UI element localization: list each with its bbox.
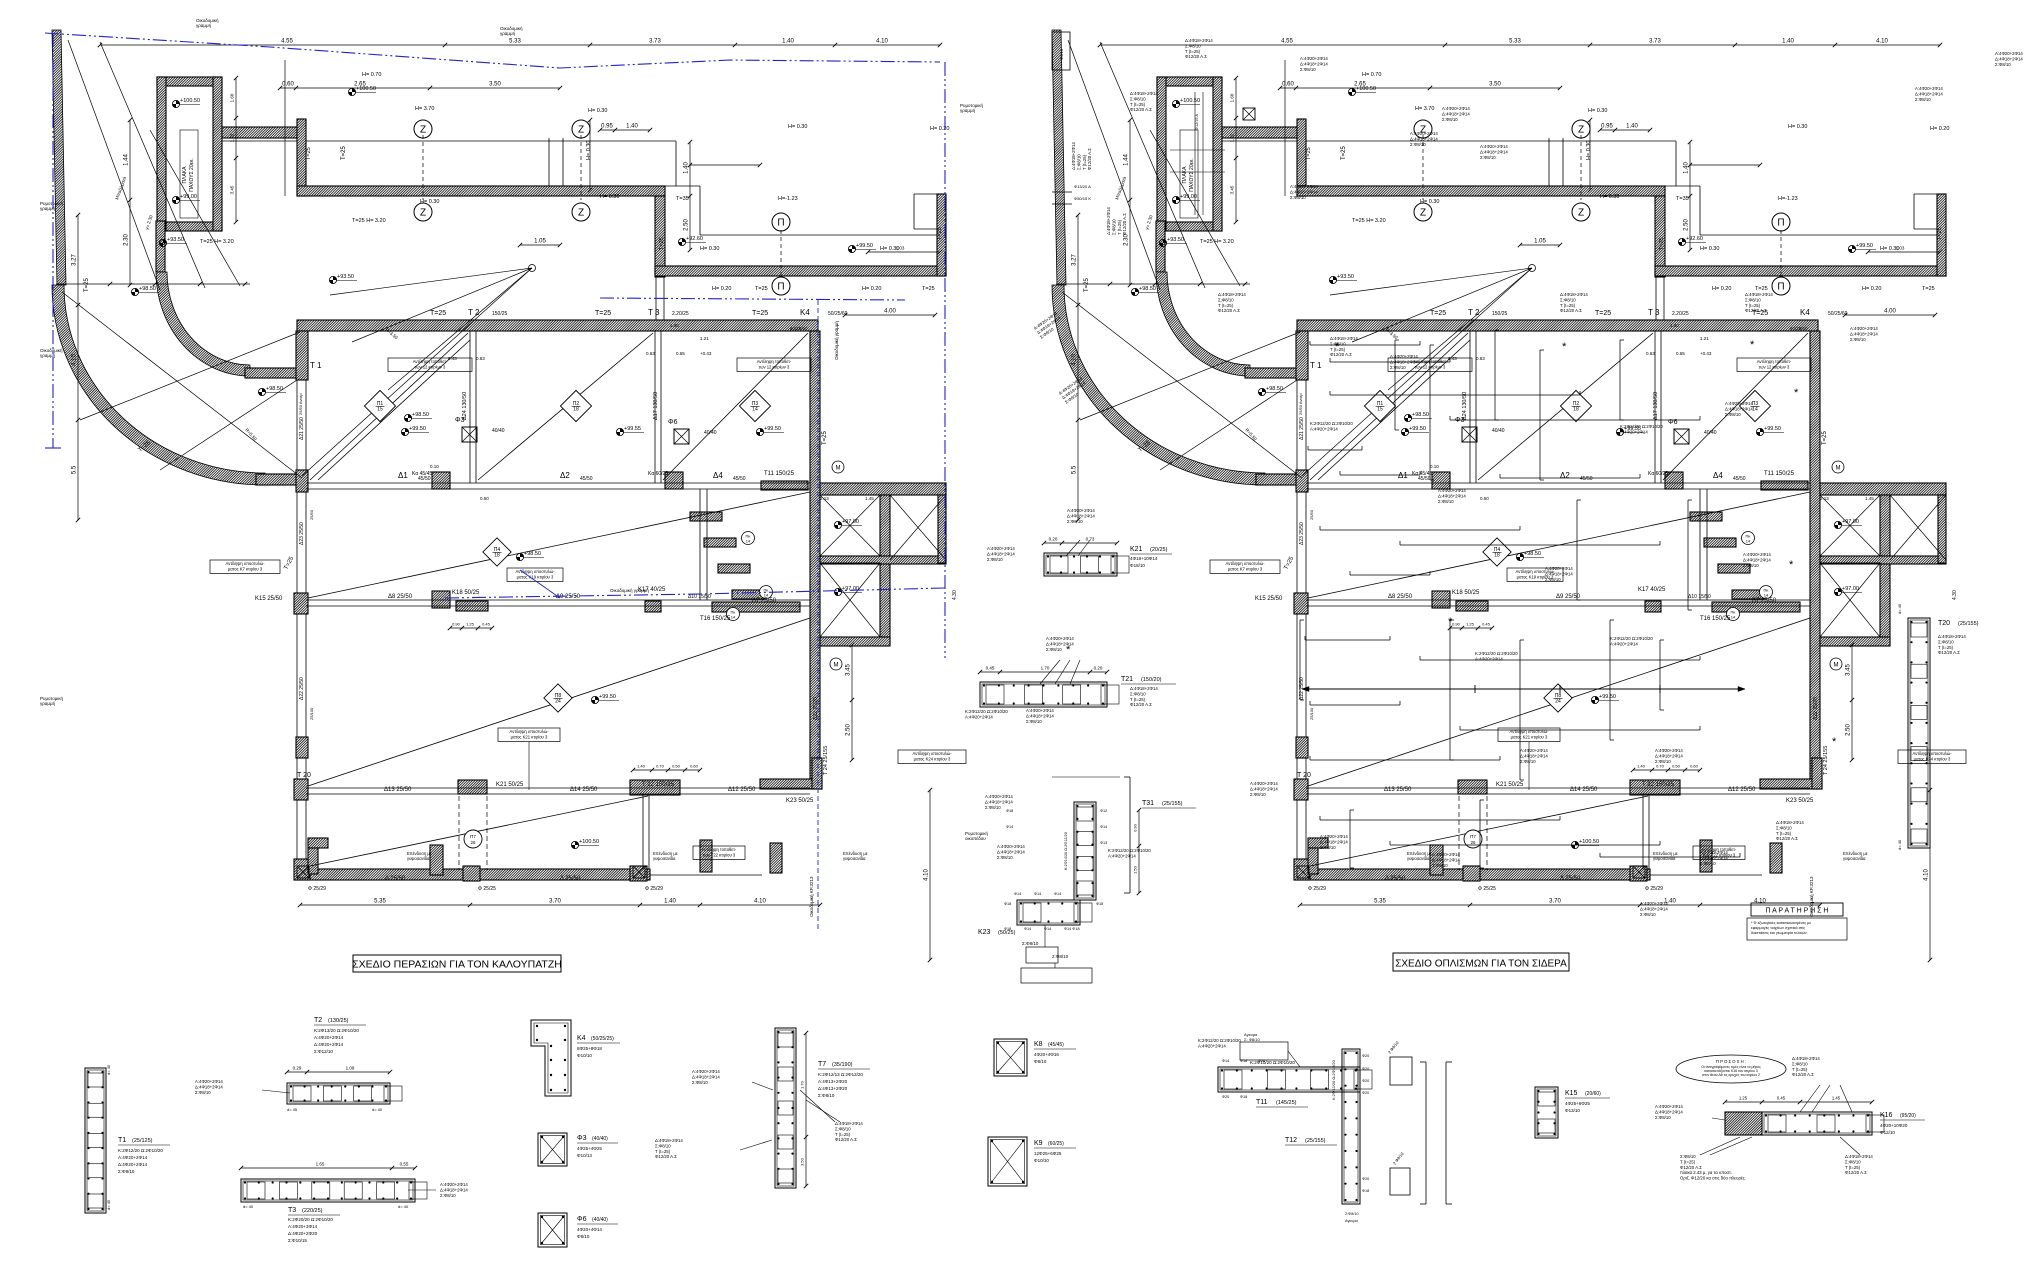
- svg-text:Δ:4Φ18+2Φ14: Δ:4Φ18+2Φ14: [1046, 641, 1074, 646]
- svg-text:0.45: 0.45: [986, 666, 995, 671]
- svg-text:Δ1: Δ1: [1398, 471, 1408, 480]
- svg-text:γραμμή: γραμμή: [40, 352, 56, 358]
- svg-text:Z: Z: [1420, 208, 1426, 219]
- svg-text:2.20/25: 2.20/25: [1672, 311, 1689, 317]
- svg-text:Φ18/10: Φ18/10: [1130, 563, 1145, 568]
- svg-text:K16: K16: [1880, 1112, 1893, 1119]
- svg-text:4Φ20+4Φ14: 4Φ20+4Φ14: [577, 1227, 602, 1232]
- svg-text:Δ:4Φ18+2Φ14: Δ:4Φ18+2Φ14: [1442, 111, 1470, 116]
- svg-text:0.73: 0.73: [1086, 537, 1095, 542]
- svg-text:Τ (t=25): Τ (t=25): [835, 1132, 851, 1137]
- svg-text:(20/60): (20/60): [1585, 1091, 1601, 1097]
- svg-text:Δ22 25/20: Δ22 25/20: [1813, 697, 1819, 720]
- svg-text:+100.50: +100.50: [1579, 839, 1599, 845]
- svg-text:1.60: 1.60: [1230, 93, 1235, 102]
- svg-text:Σ:Φ8/10: Σ:Φ8/10: [1545, 577, 1561, 582]
- svg-text:5.33: 5.33: [509, 39, 521, 45]
- svg-text:8Φ25+8Φ18: 8Φ25+8Φ18: [577, 1046, 602, 1051]
- svg-text:Δ:4Φ20+2Φ20: Δ:4Φ20+2Φ20: [288, 1231, 318, 1236]
- svg-text:Δ:4Φ18+2Φ14: Δ:4Φ18+2Φ14: [1130, 686, 1158, 691]
- svg-text:+98.50: +98.50: [266, 386, 283, 392]
- svg-text:K23: K23: [978, 929, 991, 936]
- svg-text:T=25: T=25: [1341, 145, 1347, 160]
- svg-text:T16 150/25: T16 150/25: [700, 616, 731, 622]
- svg-text:1.65: 1.65: [316, 1162, 325, 1167]
- svg-text:Κ:2Φ12/20 Ω:2Φ10/20: Κ:2Φ12/20 Ω:2Φ10/20: [1620, 424, 1663, 429]
- svg-text:(45/45): (45/45): [1048, 1042, 1064, 1048]
- svg-text:Δ17 130/50: Δ17 130/50: [1653, 392, 1659, 420]
- svg-text:Δ21 25/50: Δ21 25/50: [299, 417, 305, 440]
- svg-text:T3: T3: [288, 1207, 296, 1214]
- svg-text:Kα 45/45: Kα 45/45: [1412, 471, 1432, 477]
- svg-text:Σ:Φ8/10: Σ:Φ8/10: [1432, 863, 1448, 868]
- svg-text:Φ12/20 Α.Σ: Φ12/20 Α.Σ: [1560, 308, 1582, 313]
- svg-text:T16 150/25: T16 150/25: [1700, 616, 1731, 622]
- svg-text:Δ:4Φ18+2Φ14: Δ:4Φ18+2Φ14: [1320, 839, 1348, 844]
- svg-text:T20: T20: [1938, 620, 1950, 627]
- svg-text:Α:4Φ20+2Φ14: Α:4Φ20+2Φ14: [195, 1079, 223, 1084]
- svg-text:Φ12/20 Α.Σ: Φ12/20 Α.Σ: [835, 1137, 857, 1142]
- svg-text:3.50: 3.50: [1489, 82, 1501, 88]
- svg-text:14: 14: [1764, 593, 1769, 598]
- svg-text:Κ:2Φ12/13 Ω:2Φ12/20: Κ:2Φ12/13 Ω:2Φ12/20: [818, 1072, 863, 1077]
- svg-text:Δ:4Φ20+2Φ14: Δ:4Φ20+2Φ14: [118, 1162, 148, 1167]
- svg-text:Φ12/20 Α.Σ: Φ12/20 Α.Σ: [1185, 54, 1207, 59]
- svg-text:0.20: 0.20: [1049, 537, 1058, 542]
- svg-text:Σ:Φ8/10: Σ:Φ8/10: [1250, 792, 1266, 797]
- svg-text:Σ:Φ8/10: Σ:Φ8/10: [1218, 297, 1234, 302]
- svg-text:1.62: 1.62: [230, 133, 235, 142]
- svg-text:Α:4Φ20+2Φ14: Α:4Φ20+2Φ14: [1850, 326, 1878, 331]
- svg-text:+98.50: +98.50: [524, 551, 541, 557]
- svg-text:Δ:4Φ18+2Φ14: Δ:4Φ18+2Φ14: [1792, 1056, 1820, 1061]
- svg-text:+98.50: +98.50: [1266, 386, 1283, 392]
- svg-text:ΠΛΑΚΑ: ΠΛΑΚΑ: [1182, 166, 1188, 184]
- svg-text:Σ:Φ8/10: Σ:Φ8/10: [985, 805, 1001, 810]
- svg-text:0.83: 0.83: [476, 356, 485, 361]
- svg-text:d= 40: d= 40: [243, 1204, 254, 1209]
- svg-text:Σ:Φ8/10: Σ:Φ8/10: [1111, 219, 1116, 235]
- svg-text:0.70: 0.70: [656, 764, 665, 769]
- svg-text:1.40: 1.40: [670, 323, 679, 328]
- svg-text:Δ:4Φ18+2Φ14: Δ:4Φ18+2Φ14: [1106, 207, 1111, 235]
- svg-text:Δ:4Φ18+2Φ14: Δ:4Φ18+2Φ14: [1300, 61, 1328, 66]
- svg-text:5.33: 5.33: [1509, 39, 1521, 45]
- svg-text:1.70: 1.70: [1041, 666, 1050, 671]
- svg-text:Σ:Φ8/10: Σ:Φ8/10: [1680, 1154, 1696, 1159]
- svg-text:T=25: T=25: [922, 286, 935, 292]
- svg-text:ματος Κ7 κτιρίου 3: ματος Κ7 κτιρίου 3: [228, 566, 263, 571]
- svg-text:3.45: 3.45: [1230, 185, 1235, 194]
- svg-text:Σ:Φ8/10: Σ:Φ8/10: [1560, 297, 1576, 302]
- svg-text:T2: T2: [314, 1017, 322, 1024]
- svg-text:T 2: T 2: [1468, 308, 1480, 317]
- svg-text:K23 50/25: K23 50/25: [1786, 798, 1814, 804]
- svg-text:Σ:Φ8/10: Σ:Φ8/10: [195, 1090, 211, 1095]
- svg-text:Φ13/10: Φ13/10: [1565, 1108, 1580, 1113]
- svg-text:Α:4Φ20+2Φ14: Α:4Φ20+2Φ14: [965, 714, 993, 719]
- svg-text:+93.50: +93.50: [1337, 274, 1354, 280]
- svg-text:Κ:2Φ10/20 Ω:2Φ10/20: Κ:2Φ10/20 Ω:2Φ10/20: [1250, 1060, 1295, 1065]
- svg-text:Δ:4Φ18+2Φ14: Δ:4Φ18+2Φ14: [1545, 571, 1573, 576]
- svg-text:Δ24 130/50: Δ24 130/50: [1462, 392, 1468, 420]
- svg-text:T=25: T=25: [1659, 237, 1665, 250]
- svg-text:γραμμή: γραμμή: [40, 205, 56, 211]
- svg-text:18: 18: [494, 553, 500, 559]
- svg-text:(40/40): (40/40): [592, 1136, 608, 1142]
- svg-text:(150/20): (150/20): [1141, 677, 1162, 683]
- svg-text:+97.00: +97.00: [1842, 586, 1859, 592]
- svg-text:Δ 25/50: Δ 25/50: [1560, 876, 1581, 882]
- svg-text:Τ (t=25): Τ (t=25): [1117, 219, 1122, 235]
- svg-text:γραμμή: γραμμή: [40, 700, 56, 706]
- svg-text:γυψοσανίδα: γυψοσανίδα: [1407, 856, 1430, 861]
- svg-text:T=25: T=25: [755, 286, 768, 292]
- svg-text:Δ7 25/50: Δ7 25/50: [752, 598, 777, 604]
- svg-text:T=25: T=25: [1595, 310, 1611, 317]
- svg-text:Φ14: Φ14: [1006, 825, 1013, 829]
- svg-text:Φ14: Φ14: [1054, 892, 1061, 896]
- svg-text:H= 3.70: H= 3.70: [415, 106, 434, 112]
- svg-text:4.55: 4.55: [281, 39, 293, 45]
- svg-text:Φ14 Φ18: Φ14 Φ18: [1064, 927, 1080, 931]
- svg-text:0.90: 0.90: [1452, 622, 1461, 627]
- svg-text:4Φ25+6Φ25: 4Φ25+6Φ25: [1565, 1101, 1590, 1106]
- svg-text:0.63: 0.63: [1646, 351, 1655, 356]
- svg-text:Π: Π: [1777, 218, 1784, 229]
- svg-text:25/50: 25/50: [309, 509, 314, 520]
- svg-text:Α:4Φ20+2Φ14: Α:4Φ20+2Φ14: [692, 1069, 720, 1074]
- svg-text:Φ10/10: Φ10/10: [577, 1053, 592, 1058]
- svg-text:2:Φ8/10: 2:Φ8/10: [1052, 954, 1069, 959]
- svg-text:ματος Κ24 κτιρίου 3: ματος Κ24 κτιρίου 3: [914, 756, 951, 761]
- svg-text:γραμμή: γραμμή: [960, 107, 976, 113]
- svg-text:Τ (t=25): Τ (t=25): [1218, 303, 1234, 308]
- svg-text:Α:4Φ20+2Φ14: Α:4Φ20+2Φ14: [118, 1155, 148, 1160]
- svg-text:Α:4Φ20+2Φ14: Α:4Φ20+2Φ14: [1655, 748, 1683, 753]
- svg-text:2.50: 2.50: [1846, 724, 1852, 736]
- svg-text:Π Ρ Ο Σ Ο Χ Η :: Π Ρ Ο Σ Ο Χ Η :: [1716, 1059, 1746, 1064]
- svg-text:ματος Κ21 κτιρίου 3: ματος Κ21 κτιρίου 3: [511, 734, 548, 739]
- svg-text:1.05: 1.05: [534, 239, 546, 245]
- svg-text:(60/25): (60/25): [1048, 1141, 1064, 1147]
- svg-text:5.35: 5.35: [374, 899, 386, 905]
- svg-text:Φ12/20 Α.Σ: Φ12/20 Α.Σ: [1776, 836, 1798, 841]
- svg-text:K4: K4: [577, 1035, 586, 1042]
- svg-text:1.40: 1.40: [626, 124, 638, 130]
- svg-text:Π Α Ρ Α Τ Η Ρ Η Σ Η: Π Α Ρ Α Τ Η Ρ Η Σ Η: [1766, 908, 1829, 915]
- svg-text:(25/155): (25/155): [1305, 1138, 1326, 1144]
- svg-text:(95/20): (95/20): [1900, 1113, 1916, 1119]
- svg-text:Φ12/20 Α.Σ: Φ12/20 Α.Σ: [1087, 148, 1092, 170]
- svg-text:Δ23 25/50: Δ23 25/50: [1299, 522, 1305, 545]
- svg-text:H= 0.30: H= 0.30: [1600, 194, 1619, 200]
- svg-text:3.27: 3.27: [72, 254, 78, 266]
- svg-text:Φ2/13: Φ2/13: [1059, 48, 1064, 60]
- svg-text:ΣΧΕΔΙΟ ΟΠΛΙΣΜΩΝ ΓΙΑ ΤΟΝ ΣΙΔΕΡΑ: ΣΧΕΔΙΟ ΟΠΛΙΣΜΩΝ ΓΙΑ ΤΟΝ ΣΙΔΕΡΑ: [1395, 959, 1567, 970]
- svg-text:Α:4Φ20+2Φ14: Α:4Φ20+2Φ14: [1108, 853, 1136, 858]
- svg-text:(20/25): (20/25): [1150, 547, 1168, 553]
- svg-text:Φ18: Φ18: [1240, 1059, 1247, 1063]
- svg-text:+99.50: +99.50: [1764, 426, 1781, 432]
- svg-text:Α:4Φ20+2Φ14: Α:4Φ20+2Φ14: [1545, 566, 1573, 571]
- svg-text:Δ12 25/50: Δ12 25/50: [1728, 787, 1756, 793]
- svg-text:1.40: 1.40: [664, 899, 676, 905]
- svg-text:γραμμή: γραμμή: [196, 22, 212, 28]
- svg-text:Κ:2Φ12/20 Ω:2Φ12/20: Κ:2Φ12/20 Ω:2Φ12/20: [1331, 1059, 1336, 1100]
- svg-text:4.10: 4.10: [1924, 869, 1930, 881]
- svg-text:4Φ25+4Φ25: 4Φ25+4Φ25: [577, 1146, 602, 1151]
- svg-text:+100.50: +100.50: [1180, 98, 1200, 104]
- svg-text:0.95: 0.95: [1601, 124, 1613, 130]
- svg-text:0.90: 0.90: [452, 622, 461, 627]
- svg-text:H= 0.30: H= 0.30: [1420, 199, 1439, 205]
- svg-text:(25/125): (25/125): [132, 1138, 153, 1144]
- svg-text:εφαρμογές τοιχείων σχετικά στι: εφαρμογές τοιχείων σχετικά στις: [1751, 926, 1805, 930]
- svg-text:0.29: 0.29: [293, 1066, 302, 1071]
- svg-text:T=25: T=25: [1430, 310, 1446, 317]
- svg-text:ΠΑΧΟΥΣ 20εκ.: ΠΑΧΟΥΣ 20εκ.: [1189, 158, 1195, 192]
- svg-text:1.40: 1.40: [782, 39, 794, 45]
- svg-text:Z: Z: [420, 125, 426, 136]
- svg-text:2.30: 2.30: [124, 234, 130, 246]
- svg-text:Φ 25/25: Φ 25/25: [1478, 886, 1496, 892]
- svg-text:T1: T1: [118, 1137, 126, 1144]
- svg-text:Α:4Φ20+2Φ14: Α:4Φ20+2Φ14: [1198, 1043, 1226, 1048]
- svg-text:45/50: 45/50: [580, 476, 593, 482]
- svg-text:1.25: 1.25: [466, 622, 475, 627]
- svg-text:3.50: 3.50: [800, 1157, 805, 1166]
- svg-text:0.65: 0.65: [1676, 351, 1685, 356]
- svg-text:3.50: 3.50: [489, 82, 501, 88]
- svg-text:Α:4Φ20+2Φ14: Α:4Φ20+2Φ14: [1480, 144, 1508, 149]
- svg-text:Δ22 25/50: Δ22 25/50: [299, 677, 305, 700]
- svg-text:150/25: 150/25: [1492, 311, 1508, 317]
- svg-text:Δ24 130/50: Δ24 130/50: [462, 392, 468, 420]
- svg-text:14: 14: [764, 593, 769, 598]
- svg-text:+98.50: +98.50: [1524, 551, 1541, 557]
- svg-text:4.00: 4.00: [1884, 309, 1896, 315]
- svg-text:Φ10/13: Φ10/13: [577, 1153, 592, 1158]
- svg-text:Δ:4Φ18+2Φ14: Δ:4Φ18+2Φ14: [1250, 786, 1278, 791]
- svg-text:0.90: 0.90: [1133, 823, 1138, 832]
- svg-text:15: 15: [377, 407, 383, 413]
- svg-text:T31: T31: [1142, 800, 1154, 807]
- svg-text:Φ12/20 Α.Σ: Φ12/20 Α.Σ: [1938, 650, 1960, 655]
- svg-text:24: 24: [555, 699, 561, 705]
- svg-text:Δ14 25/50: Δ14 25/50: [570, 787, 598, 793]
- svg-text:Φ12/20 Α.Σ: Φ12/20 Α.Σ: [1130, 702, 1152, 707]
- svg-text:d= 45: d= 45: [106, 1199, 111, 1210]
- svg-text:Φ50/15 Κ: Φ50/15 Κ: [1074, 196, 1091, 201]
- svg-text:+99.50: +99.50: [764, 426, 781, 432]
- svg-text:Δ:4Φ18+2Φ14: Δ:4Φ18+2Φ14: [1026, 713, 1054, 718]
- svg-text:Α:4Φ20+2Φ14: Α:4Φ20+2Φ14: [1046, 636, 1074, 641]
- svg-text:4Φ20+4Φ16: 4Φ20+4Φ16: [1034, 1052, 1059, 1057]
- svg-text:Α:4Φ20+2Φ14: Α:4Φ20+2Φ14: [1475, 656, 1503, 661]
- svg-text:Δ4: Δ4: [1713, 471, 1723, 480]
- svg-text:Τ (t=25): Τ (t=25): [1845, 1165, 1861, 1170]
- svg-text:1.62: 1.62: [1230, 133, 1235, 142]
- svg-text:Φ14: Φ14: [1222, 1059, 1229, 1063]
- svg-text:στον θεού Δθ τις ορυχές του κτ: στον θεού Δθ τις ορυχές του κτιρίου 2: [1702, 1073, 1760, 1077]
- svg-text:Α:4Φ20+2Φ14: Α:4Φ20+2Φ14: [997, 844, 1025, 849]
- svg-text:Τ (t=25): Τ (t=25): [1792, 1067, 1808, 1072]
- svg-text:T 1: T 1: [1310, 361, 1322, 370]
- svg-text:0.43: 0.43: [1448, 356, 1457, 361]
- svg-text:*: *: [1335, 341, 1340, 353]
- svg-text:Α:4Φ20+2Φ14: Α:4Φ20+2Φ14: [1250, 781, 1278, 786]
- svg-text:Κ:2Φ12/20 Ω:2Φ10/20: Κ:2Φ12/20 Ω:2Φ10/20: [1108, 848, 1151, 853]
- svg-text:Δ:4Φ18+2Φ14: Δ:4Φ18+2Φ14: [1067, 513, 1095, 518]
- svg-text:Σ:Φ8/10: Σ:Φ8/10: [1995, 62, 2011, 67]
- svg-text:1.40: 1.40: [1782, 39, 1794, 45]
- svg-text:0.50: 0.50: [1480, 496, 1489, 501]
- svg-text:Σ:Φ8/10: Σ:Φ8/10: [1938, 639, 1954, 644]
- svg-text:Οικοδομική γραμμή: Οικοδομική γραμμή: [833, 321, 839, 360]
- svg-text:H= 0.30: H= 0.30: [700, 246, 719, 252]
- svg-text:3.45: 3.45: [1846, 664, 1852, 676]
- svg-text:4Φ18+10Φ14: 4Φ18+10Φ14: [1130, 556, 1158, 561]
- svg-text:18: 18: [1494, 553, 1500, 559]
- svg-text:Σ:Φ8/10: Σ:Φ8/10: [1067, 519, 1083, 524]
- svg-text:Κ:2Φ13/20 Ω:2Φ10/20: Κ:2Φ13/20 Ω:2Φ10/20: [314, 1028, 359, 1033]
- svg-text:Α:4Φ20+2Φ14: Α:4Φ20+2Φ14: [1438, 488, 1466, 493]
- svg-text:Φ13: Φ13: [1100, 841, 1107, 845]
- svg-text:Σ:Φ8/10: Σ:Φ8/10: [1410, 142, 1426, 147]
- svg-text:M: M: [1836, 466, 1841, 472]
- svg-text:ΣΧΕΔΙΟ ΠΕΡΑΣΙΩΝ ΓΙΑ ΤΟΝ ΚΑΛΟΥΠ: ΣΧΕΔΙΟ ΠΕΡΑΣΙΩΝ ΓΙΑ ΤΟΝ ΚΑΛΟΥΠΑΤΖΗ: [352, 959, 562, 971]
- svg-text:T=25: T=25: [659, 237, 665, 250]
- svg-text:Σ:Φ8/10: Σ:Φ8/10: [1655, 759, 1671, 764]
- svg-text:Δ:4Φ18+2Φ14: Δ:4Φ18+2Φ14: [1655, 1109, 1683, 1114]
- svg-text:3.70: 3.70: [1549, 899, 1561, 905]
- svg-text:Α:4Φ20+2Φ14: Α:4Φ20+2Φ14: [1067, 508, 1095, 513]
- svg-text:Σ:Φ8/10: Σ:Φ8/10: [997, 855, 1013, 860]
- svg-text:18: 18: [1573, 407, 1579, 413]
- svg-text:0.50: 0.50: [1672, 764, 1681, 769]
- svg-text:T11: T11: [1256, 1099, 1268, 1106]
- svg-text:T=25: T=25: [84, 277, 90, 292]
- svg-text:3.73: 3.73: [1649, 39, 1661, 45]
- svg-text:14: 14: [752, 407, 758, 413]
- svg-text:Α:4Φ13+2Φ20: Α:4Φ13+2Φ20: [818, 1079, 848, 1084]
- svg-text:T 24 25/155: T 24 25/155: [823, 746, 829, 775]
- svg-text:Σ:Φ8/10: Σ:Φ8/10: [1130, 96, 1146, 101]
- svg-text:γραμμή: γραμμή: [500, 30, 516, 36]
- svg-text:1.21: 1.21: [700, 336, 709, 341]
- svg-text:d= 40: d= 40: [398, 1204, 409, 1209]
- svg-text:Δ 25/50: Δ 25/50: [560, 876, 581, 882]
- svg-text:+99.50: +99.50: [1409, 426, 1426, 432]
- svg-text:Δ14 25/50: Δ14 25/50: [1570, 787, 1598, 793]
- svg-text:H= 0.70: H= 0.70: [1362, 72, 1381, 78]
- svg-text:ματος Κ7 κτιρίου 3: ματος Κ7 κτιρίου 3: [1228, 566, 1263, 571]
- svg-text:Φ12/20 Α.Σ: Φ12/20 Α.Σ: [1792, 1072, 1814, 1077]
- svg-text:Αγκυρα: Αγκυρα: [1345, 1219, 1358, 1223]
- svg-text:Δ12 25/50: Δ12 25/50: [728, 787, 756, 793]
- svg-text:H= 0.30: H= 0.30: [788, 124, 807, 130]
- svg-text:2.50: 2.50: [1684, 219, 1690, 231]
- svg-text:(145/25): (145/25): [1276, 1100, 1297, 1106]
- svg-text:4.55: 4.55: [1281, 39, 1293, 45]
- svg-text:Σ:Φ8/10: Σ:Φ8/10: [1700, 861, 1716, 866]
- svg-text:T7: T7: [818, 1061, 826, 1068]
- svg-text:2.13: 2.13: [1820, 496, 1829, 501]
- svg-text:Δ:4Φ13+2Φ20: Δ:4Φ13+2Φ20: [818, 1086, 848, 1091]
- svg-text:Α:4Φ20+2Φ14: Α:4Φ20+2Φ14: [1620, 429, 1648, 434]
- svg-text:Α:4Φ20+2Φ14: Α:4Φ20+2Φ14: [1655, 1104, 1683, 1109]
- svg-text:Φ14: Φ14: [1024, 927, 1031, 931]
- svg-text:d= 45: d= 45: [1897, 839, 1902, 850]
- svg-text:150/25: 150/25: [492, 311, 508, 317]
- svg-text:Φ18: Φ18: [1004, 902, 1011, 906]
- svg-text:4.10: 4.10: [72, 354, 78, 366]
- svg-text:4.10: 4.10: [754, 899, 766, 905]
- svg-text:Φ12/20 Α.Σ: Φ12/20 Α.Σ: [655, 1154, 677, 1159]
- svg-text:Α:4Φ20+2Φ14: Α:4Φ20+2Φ14: [1390, 354, 1418, 359]
- svg-text:Σ:Φ12/10: Σ:Φ12/10: [314, 1049, 333, 1054]
- svg-text:H= 0.20: H= 0.20: [1862, 286, 1881, 292]
- svg-text:T=25: T=25: [1922, 286, 1935, 292]
- svg-text:M: M: [1834, 663, 1839, 669]
- svg-text:T=25: T=25: [1084, 277, 1090, 292]
- svg-text:K15 25/50: K15 25/50: [255, 596, 283, 602]
- svg-text:3.73: 3.73: [649, 39, 661, 45]
- svg-text:Σ:Φ8/10: Σ:Φ8/10: [1845, 1159, 1861, 1164]
- svg-text:3.27: 3.27: [1072, 254, 1078, 266]
- svg-text:Φ8/10: Φ8/10: [577, 1234, 590, 1239]
- svg-text:Δ:4Φ18+2Φ14: Δ:4Φ18+2Φ14: [1845, 1154, 1873, 1159]
- svg-text:0.83: 0.83: [1476, 356, 1485, 361]
- svg-text:Φ12/20 Α.Σ: Φ12/20 Α.Σ: [1845, 1170, 1867, 1175]
- svg-text:T=25 H= 3.20: T=25 H= 3.20: [1200, 239, 1234, 245]
- svg-text:H= 0.30: H= 0.30: [1788, 124, 1807, 130]
- svg-text:T=25 H= 3.20: T=25 H= 3.20: [200, 239, 234, 245]
- svg-text:Φ12/20 Α.Σ: Φ12/20 Α.Σ: [1680, 1165, 1702, 1170]
- svg-text:+99.50: +99.50: [1856, 243, 1873, 249]
- svg-text:5.5: 5.5: [72, 465, 78, 474]
- svg-text:Σ:Φ8/10: Σ:Φ8/10: [835, 1126, 851, 1131]
- svg-text:Φ12/20 Α.Σ: Φ12/20 Α.Σ: [1218, 308, 1240, 313]
- svg-text:H= 0.20: H= 0.20: [1712, 286, 1731, 292]
- svg-text:H= 0.20: H= 0.20: [1930, 126, 1949, 132]
- svg-text:H= 0.30: H= 0.30: [420, 199, 439, 205]
- svg-text:Α:4Φ20+2Φ14: Α:4Φ20+2Φ14: [1432, 852, 1460, 857]
- svg-text:Φ12/20 Α.Σ: Φ12/20 Α.Σ: [1745, 308, 1767, 313]
- svg-text:0.65: 0.65: [676, 351, 685, 356]
- svg-text:T 3: T 3: [1648, 308, 1660, 317]
- svg-text:+0.43: +0.43: [1700, 351, 1712, 356]
- svg-text:+93.50: +93.50: [167, 237, 184, 243]
- svg-text:Τ (t=25): Τ (t=25): [1938, 645, 1954, 650]
- svg-text:T=25: T=25: [1822, 430, 1828, 445]
- svg-text:Δ:4Φ18+2Φ14: Δ:4Φ18+2Φ14: [1432, 857, 1460, 862]
- svg-text:Δ7 25/50: Δ7 25/50: [1752, 598, 1777, 604]
- svg-text:T 22 150/25: T 22 150/25: [1642, 782, 1675, 788]
- svg-text:(25/155): (25/155): [1162, 801, 1183, 807]
- svg-text:+92.60: +92.60: [686, 236, 703, 242]
- svg-text:+100.50: +100.50: [180, 98, 200, 104]
- svg-text:14: 14: [1731, 615, 1736, 620]
- svg-text:Φ18: Φ18: [1362, 1189, 1369, 1193]
- svg-text:1.21: 1.21: [1700, 336, 1709, 341]
- svg-text:Δ:4Φ18+2Φ14: Δ:4Φ18+2Φ14: [1640, 906, 1668, 911]
- svg-text:T 1: T 1: [310, 361, 322, 370]
- svg-text:(130/25): (130/25): [328, 1018, 349, 1024]
- svg-text:K8: K8: [1034, 1041, 1043, 1048]
- svg-text:ματος Κ19 κτιρίου 3: ματος Κ19 κτιρίου 3: [517, 574, 554, 579]
